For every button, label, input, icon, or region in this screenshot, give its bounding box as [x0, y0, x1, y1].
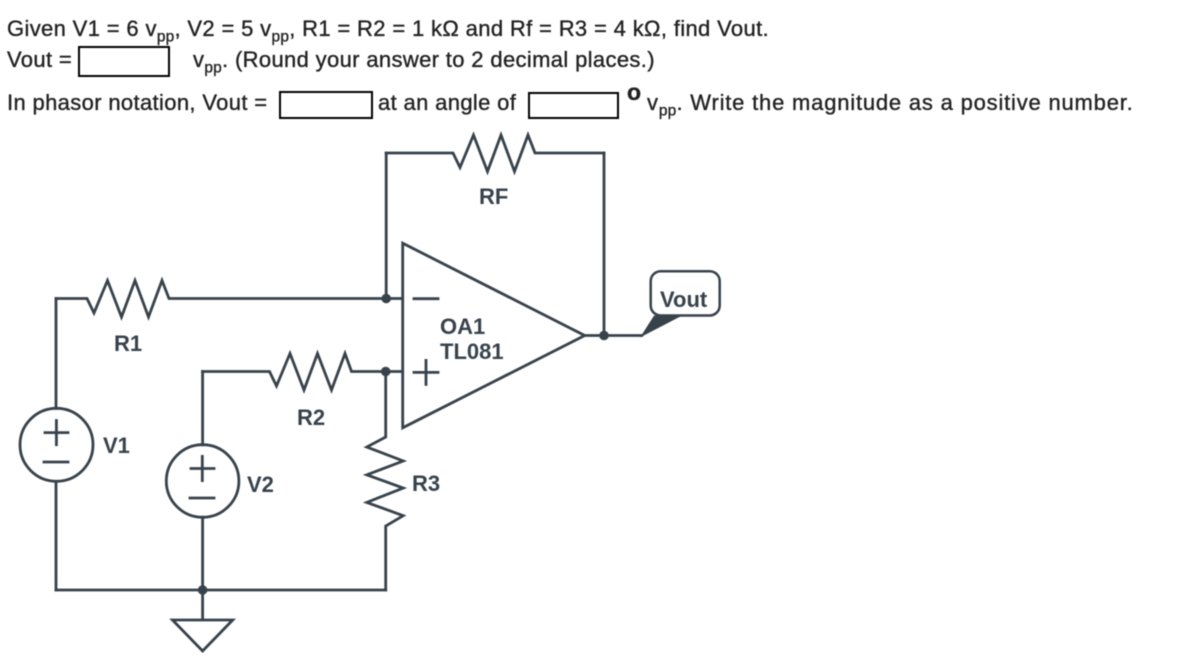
op-amp OA1 [403, 243, 585, 428]
source V2 [166, 445, 239, 518]
junction: non-inverting input node [381, 367, 391, 377]
resistor R1 [56, 281, 403, 318]
svg-text:R1: R1 [114, 331, 142, 356]
problem text line 2 [7, 47, 72, 73]
answer box 2 [279, 91, 373, 119]
resistor R2 [203, 354, 403, 391]
svg-text:V1: V1 [103, 433, 130, 458]
wire: output [585, 334, 642, 337]
label Vout flag [651, 271, 720, 315]
answer box 3 [528, 92, 619, 119]
ground [201, 590, 204, 620]
svg-text:R3: R3 [412, 471, 440, 496]
resistor R3 [367, 372, 403, 591]
junction: ground node [198, 585, 208, 595]
problem text line 1 [7, 16, 769, 50]
wire: V2 top [201, 372, 204, 445]
svg-text:TL081: TL081 [440, 339, 504, 364]
source V1 [20, 408, 93, 481]
wire: V2 bottom [201, 517, 204, 590]
degree symbol [627, 79, 641, 105]
svg-text:V2: V2 [247, 472, 274, 497]
resistor RF [386, 135, 604, 172]
junction: inverting input node [381, 294, 391, 304]
wire: V1 to R1 [55, 299, 58, 409]
wire: V1 bottom [55, 481, 58, 590]
svg-text:OA1: OA1 [440, 314, 485, 339]
problem text line 3 [7, 90, 267, 116]
svg-text:R2: R2 [297, 405, 325, 430]
answer box 1 [78, 46, 170, 77]
svg-text:RF: RF [479, 184, 508, 209]
wire: feedback left vertical [385, 153, 388, 299]
wire: feedback right vertical [603, 153, 606, 336]
wire: bottom ground rail [56, 589, 386, 592]
junction: output node [599, 331, 609, 341]
svg-text:Vout: Vout [660, 287, 708, 312]
